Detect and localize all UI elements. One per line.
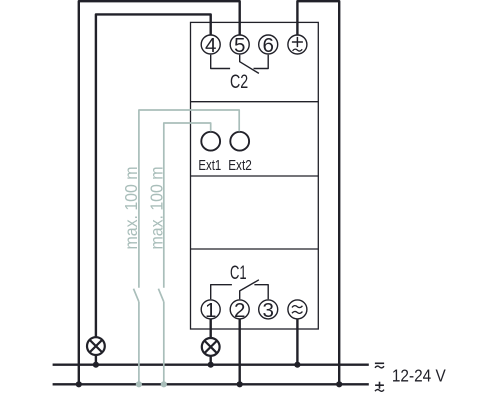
svg-text:4: 4	[205, 34, 216, 57]
svg-text:C2: C2	[230, 71, 248, 93]
svg-text:6: 6	[262, 34, 273, 57]
svg-text:C1: C1	[230, 262, 247, 284]
svg-text:Ext2: Ext2	[228, 158, 252, 174]
svg-text:5: 5	[234, 34, 245, 57]
svg-text:max. 100 m: max. 100 m	[146, 167, 166, 250]
svg-text:3: 3	[262, 299, 273, 322]
svg-text:2: 2	[234, 299, 245, 322]
svg-text:max. 100 m: max. 100 m	[121, 167, 141, 250]
svg-text:Ext1: Ext1	[198, 158, 221, 174]
svg-text:1: 1	[205, 299, 216, 322]
svg-text:12-24 V: 12-24 V	[392, 366, 446, 386]
